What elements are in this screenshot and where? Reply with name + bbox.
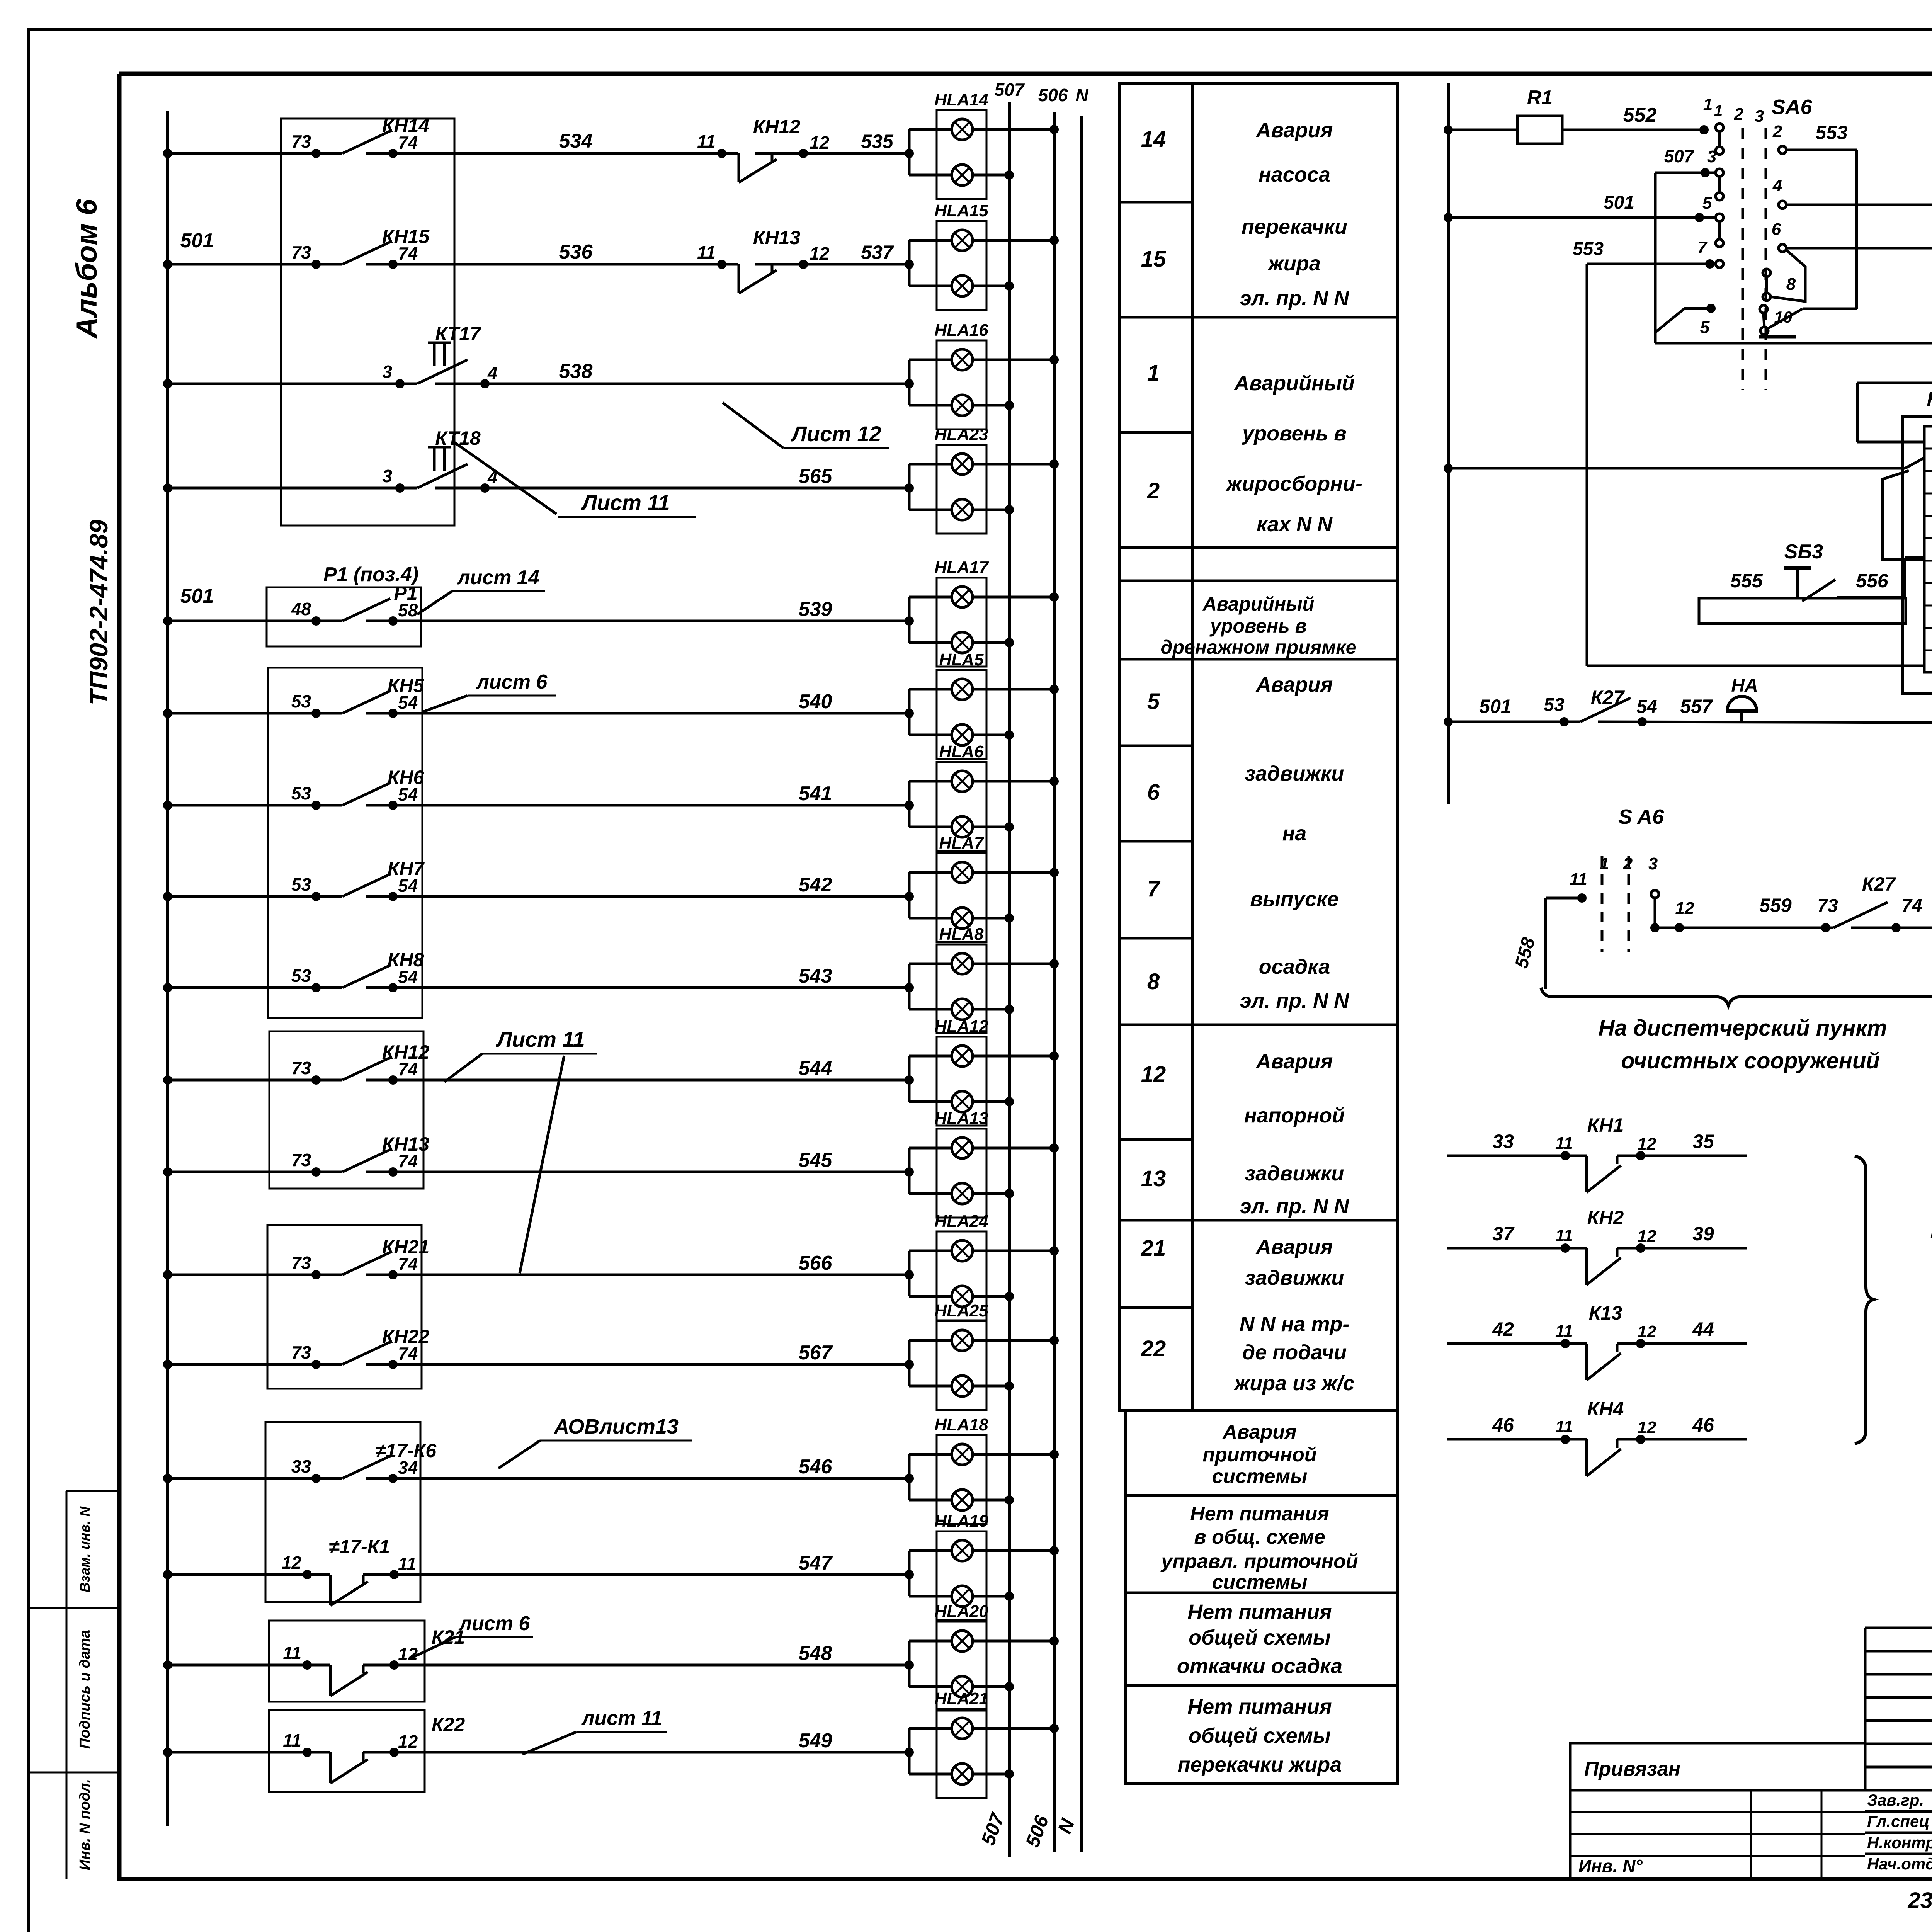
wire rung 536 [168, 263, 342, 266]
svg-text:5: 5 [1147, 689, 1160, 714]
KHA enclosure [1903, 417, 1932, 694]
svg-text:Авария: Авария [1255, 1235, 1333, 1259]
svg-text:Аварийный: Аварийный [1233, 372, 1355, 395]
svg-text:4: 4 [1772, 176, 1782, 195]
indicator lamps HLA19 [908, 1551, 911, 1596]
bus 507 left [1008, 102, 1011, 1857]
contact КН8 [342, 965, 390, 988]
KHA terminal strip [1924, 426, 1932, 672]
svg-text:К22: К22 [432, 1714, 465, 1735]
svg-text:КН6: КН6 [388, 767, 425, 788]
tap on bus 506 [1049, 125, 1059, 134]
svg-text:КН5: КН5 [388, 675, 425, 696]
tap on bus 506 [1049, 959, 1059, 968]
junction on bus, rung 539 [163, 616, 172, 626]
svg-text:2: 2 [1772, 122, 1782, 141]
contact К13 [1447, 1342, 1587, 1345]
svg-text:11: 11 [697, 131, 716, 151]
SA6 right terminals / contact 2 loop 553 [1779, 146, 1786, 154]
junction on bus, rung 547 [163, 1570, 172, 1579]
svg-text:На диспетчерский пункт: На диспетчерский пункт [1599, 1015, 1887, 1041]
contact КН1 [1447, 1155, 1587, 1157]
tap on bus 507 [1005, 1097, 1014, 1106]
tap on bus 506 [1049, 868, 1059, 877]
tap on bus 507 [1005, 401, 1014, 410]
wire 507 long horizontal [1655, 342, 1932, 345]
svg-text:46: 46 [1692, 1414, 1714, 1436]
svg-text:23985-06: 23985-06 [1907, 1888, 1932, 1913]
left stamp column vertical [66, 1491, 68, 1879]
indicator lamps HLA6 [908, 781, 911, 827]
svg-text:Взам. инв. N: Взам. инв. N [77, 1506, 93, 1593]
svg-text:КН8: КН8 [388, 949, 424, 971]
left stamp divider 1 [29, 1607, 119, 1609]
contact К21 [329, 1665, 332, 1696]
svg-text:HLA23: HLA23 [934, 425, 988, 444]
svg-text:12: 12 [1638, 1322, 1656, 1341]
tap on bus 506 [1049, 1546, 1059, 1555]
svg-text:39: 39 [1692, 1223, 1714, 1245]
leader note лист 6 (KH5) [468, 695, 556, 697]
table upper outline [1120, 83, 1397, 1411]
svg-text:12: 12 [1141, 1062, 1166, 1087]
box around K22 [269, 1710, 425, 1792]
svg-text:К13: К13 [1589, 1302, 1622, 1324]
tap on bus 507 [1005, 505, 1014, 514]
brace KH group [1855, 1156, 1874, 1444]
svg-text:544: 544 [799, 1057, 832, 1080]
svg-text:15: 15 [1141, 247, 1166, 272]
svg-text:12: 12 [398, 1644, 418, 1664]
leader note Лист 11 (KH12 / KH21) [482, 1053, 597, 1055]
svg-text:11: 11 [1555, 1226, 1573, 1245]
contact K27 blade [1580, 698, 1631, 722]
svg-text:7: 7 [1697, 238, 1708, 257]
svg-text:22: 22 [1141, 1336, 1166, 1361]
svg-text:лист 6: лист 6 [458, 1612, 531, 1635]
svg-text:КН13: КН13 [382, 1133, 430, 1155]
indicator lamps HLA12 [908, 1056, 911, 1102]
svg-text:545: 545 [799, 1149, 833, 1172]
svg-text:549: 549 [799, 1730, 832, 1752]
svg-text:R1: R1 [1527, 87, 1553, 109]
bus 506 left [1053, 112, 1056, 1852]
svg-text:557: 557 [1680, 696, 1713, 717]
indicator lamps HLA18 [908, 1454, 911, 1500]
svg-text:системы: системы [1212, 1571, 1308, 1594]
svg-text:546: 546 [799, 1456, 833, 1478]
svg-text:12: 12 [1638, 1227, 1656, 1246]
svg-text:73: 73 [291, 242, 311, 262]
junction on bus, rung 543 [163, 983, 172, 992]
svg-text:HLA19: HLA19 [934, 1512, 988, 1531]
svg-text:Авария: Авария [1222, 1421, 1296, 1443]
time-delay symbol [433, 447, 436, 471]
box around K21 [269, 1621, 425, 1702]
bell HA [1727, 696, 1757, 711]
svg-text:на: на [1282, 822, 1307, 845]
wire rung 546 [168, 1477, 342, 1480]
indicator lamps HLA20 [908, 1641, 911, 1687]
svg-text:задвижки: задвижки [1245, 1266, 1344, 1289]
svg-text:12: 12 [810, 243, 830, 264]
contact КН13 [342, 1150, 390, 1172]
svg-text:42: 42 [1492, 1318, 1514, 1340]
svg-text:2: 2 [1734, 105, 1744, 124]
svg-text:К27: К27 [1862, 873, 1896, 895]
svg-text:33: 33 [1492, 1131, 1514, 1152]
wire 553 down to terminal 21 [1586, 264, 1588, 666]
svg-text:Нет питания: Нет питания [1187, 1695, 1332, 1718]
indicator lamps HLA14 [908, 129, 911, 175]
svg-text:548: 548 [799, 1642, 832, 1665]
tap on bus 506 [1049, 1336, 1059, 1345]
svg-text:HLA17: HLA17 [934, 558, 989, 577]
contact КТ18 [417, 464, 468, 488]
contact КН4 [1447, 1438, 1587, 1441]
contact КТ17 [417, 360, 468, 384]
svg-text:11: 11 [1570, 870, 1587, 889]
svg-text:54: 54 [1636, 697, 1657, 717]
svg-text:73: 73 [291, 1058, 311, 1078]
svg-text:уровень в: уровень в [1209, 615, 1307, 637]
svg-text:3: 3 [1755, 107, 1764, 126]
contact КН21 [342, 1252, 390, 1275]
tap on bus 506 [1049, 592, 1059, 602]
svg-text:12: 12 [1638, 1418, 1656, 1437]
svg-text:КН12: КН12 [382, 1041, 430, 1063]
svg-text:33: 33 [291, 1456, 311, 1476]
contact К22 [329, 1752, 332, 1783]
svg-text:де подачи: де подачи [1242, 1341, 1347, 1364]
svg-text:11: 11 [283, 1730, 301, 1750]
box around 17-K6 17-K1 [265, 1422, 420, 1602]
svg-text:6: 6 [1147, 780, 1160, 805]
wire rung 548 [168, 1664, 330, 1667]
left bus wire 501 vertical [166, 111, 169, 1826]
indicator lamps HLA21 [908, 1728, 911, 1774]
contact КН12 [755, 152, 909, 155]
junction on bus, rung 541 [163, 801, 172, 810]
svg-text:N N на тр-: N N на тр- [1240, 1313, 1350, 1336]
wire rung 539 [168, 620, 342, 622]
svg-text:SБ3: SБ3 [1784, 541, 1823, 563]
wire rung 534 [168, 152, 342, 155]
svg-text:К27: К27 [1591, 687, 1625, 708]
switch SA6 dashed section lines [1742, 128, 1744, 390]
svg-text:HLA6: HLA6 [939, 742, 984, 761]
box around P1 [267, 587, 421, 646]
svg-text:536: 536 [559, 241, 593, 263]
svg-text:Привязан: Привязан [1584, 1758, 1680, 1780]
SA6 pin 4 wire N [1779, 201, 1786, 209]
svg-text:11: 11 [1555, 1134, 1573, 1153]
wire 554 into terminal 1 [1856, 383, 1859, 442]
svg-text:552: 552 [1623, 104, 1657, 126]
svg-text:73: 73 [291, 1253, 311, 1273]
jumper to terminal 13 [1883, 471, 1923, 560]
svg-text:547: 547 [799, 1552, 833, 1574]
bus N left [1080, 116, 1083, 1852]
svg-text:12: 12 [810, 133, 830, 153]
tap on bus 507 [1005, 170, 1014, 180]
svg-text:501: 501 [1479, 696, 1511, 717]
svg-text:Нет питания: Нет питания [1190, 1503, 1329, 1525]
junction on bus, rung 534 [163, 149, 172, 158]
svg-text:11: 11 [283, 1643, 301, 1663]
svg-text:53: 53 [291, 966, 311, 986]
svg-text:задвижки: задвижки [1245, 1162, 1344, 1185]
svg-text:11: 11 [1555, 1417, 1573, 1436]
svg-text:в общ. схеме: в общ. схеме [1194, 1526, 1325, 1548]
svg-text:Авария: Авария [1255, 119, 1333, 142]
title block [1864, 1628, 1867, 1790]
svg-text:HLA20: HLA20 [934, 1602, 988, 1621]
svg-text:6: 6 [1772, 220, 1781, 239]
svg-text:538: 538 [559, 360, 593, 383]
svg-text:11: 11 [398, 1554, 417, 1574]
svg-text:35: 35 [1692, 1131, 1714, 1152]
svg-text:эл. пр. N N: эл. пр. N N [1240, 287, 1349, 310]
contact КН22 [342, 1342, 390, 1364]
svg-text:3: 3 [382, 362, 392, 382]
contact КН2 [1447, 1247, 1587, 1250]
wire 559 [1655, 927, 1833, 929]
svg-text:напорной: напорной [1244, 1104, 1345, 1127]
svg-text:НА: НА [1731, 675, 1758, 696]
svg-text:Инв. N°: Инв. N° [1578, 1856, 1643, 1876]
wire 554 / relay K27 coil [1857, 382, 1932, 384]
contact КН15 [342, 242, 390, 264]
svg-text:КН4: КН4 [1587, 1398, 1624, 1420]
wire rung 542 [168, 895, 342, 898]
svg-text:539: 539 [799, 598, 832, 621]
svg-text:48: 48 [291, 599, 311, 619]
svg-text:553: 553 [1815, 122, 1848, 143]
tap on bus 506 [1049, 1143, 1059, 1153]
tap on bus 507 [1005, 638, 1014, 647]
svg-text:556: 556 [1856, 570, 1889, 592]
indicator lamps HLA13 [908, 1148, 911, 1194]
junction R1 rung [1444, 125, 1453, 134]
svg-text:приточной: приточной [1202, 1444, 1316, 1466]
svg-text:Лист 11: Лист 11 [580, 490, 670, 515]
tap on bus 507 [1005, 730, 1014, 740]
tap on bus 506 [1049, 1051, 1059, 1061]
contact КН7 [342, 874, 390, 896]
svg-text:задвижки: задвижки [1245, 762, 1344, 785]
svg-text:542: 542 [799, 874, 832, 896]
svg-text:534: 534 [559, 130, 593, 152]
tap on bus 506 [1049, 777, 1059, 786]
tap on bus 506 [1049, 685, 1059, 694]
svg-text:КН13: КН13 [753, 227, 801, 248]
wire rung 543 [168, 986, 342, 989]
junction on bus, rung 566 [163, 1270, 172, 1279]
indicator lamps HLA15 [908, 240, 911, 286]
SA6 contact 10 [1760, 305, 1767, 313]
svg-text:501: 501 [180, 230, 214, 252]
svg-text:Зав.гр.: Зав.гр. [1867, 1791, 1924, 1809]
svg-text:501: 501 [180, 585, 214, 607]
svg-text:12: 12 [398, 1731, 418, 1752]
svg-text:Авария: Авария [1255, 673, 1333, 696]
svg-text:жира из ж/с: жира из ж/с [1233, 1372, 1354, 1395]
svg-text:73: 73 [291, 1342, 311, 1362]
svg-text:12: 12 [1675, 899, 1694, 918]
svg-text:1: 1 [1703, 95, 1713, 114]
svg-text:3: 3 [1707, 147, 1716, 166]
svg-text:перекачки жира: перекачки жира [1178, 1753, 1342, 1776]
svg-text:540: 540 [799, 690, 832, 713]
tap on bus 506 [1049, 236, 1059, 245]
svg-text:2: 2 [1147, 478, 1160, 503]
svg-text:53: 53 [291, 783, 311, 803]
svg-text:5: 5 [1700, 318, 1710, 337]
svg-text:осадка: осадка [1259, 955, 1330, 978]
svg-text:74: 74 [1901, 896, 1922, 916]
junction on bus, rung 545 [163, 1167, 172, 1177]
svg-text:53: 53 [1544, 695, 1565, 715]
svg-text:565: 565 [799, 465, 833, 488]
wire 552 [1562, 129, 1704, 131]
svg-text:HLA15: HLA15 [934, 201, 988, 220]
left stamp divider 2 [29, 1772, 119, 1774]
SA6 left terminals [1716, 124, 1723, 131]
svg-text:HLA12: HLA12 [934, 1017, 988, 1036]
svg-text:44: 44 [1692, 1318, 1714, 1340]
contact КН5 [342, 691, 390, 713]
svg-text:HLA5: HLA5 [939, 650, 984, 669]
svg-text:Н.контр: Н.контр [1867, 1833, 1932, 1852]
indicator lamps HLA5 [908, 689, 911, 735]
svg-text:21: 21 [1141, 1236, 1166, 1261]
box around KH12 KH13 [269, 1031, 423, 1189]
svg-text:S A6: S A6 [1618, 805, 1664, 828]
svg-text:КН1: КН1 [1587, 1114, 1624, 1136]
svg-text:8: 8 [1786, 275, 1796, 294]
tap on bus 506 [1049, 1246, 1059, 1255]
tap on bus 507 [1005, 1381, 1014, 1391]
indicator lamps HLA8 [908, 964, 911, 1009]
SB3 contact bar [1699, 598, 1906, 624]
svg-text:КН7: КН7 [388, 858, 425, 879]
svg-text:Подпись и дата: Подпись и дата [77, 1630, 93, 1749]
wire rung 565 [168, 487, 417, 490]
wire rung 567 [168, 1363, 342, 1366]
svg-text:555: 555 [1730, 570, 1763, 592]
left stamp divider top [66, 1490, 119, 1492]
junction on bus, rung 565 [163, 483, 172, 493]
svg-text:1: 1 [1147, 361, 1160, 386]
indicator lamps HLA16 [908, 360, 911, 405]
tap on bus 506 [1049, 1724, 1059, 1733]
leader note Лист 11 (box A) [454, 442, 556, 514]
svg-text:53: 53 [291, 874, 311, 895]
svg-text:N: N [1075, 85, 1088, 105]
junction on bus, rung 548 [163, 1660, 172, 1670]
svg-text:14: 14 [1141, 127, 1166, 152]
leader note лист 6 (K21) [455, 1636, 533, 1638]
indicator lamps HLA25 [908, 1340, 911, 1386]
svg-text:КН2: КН2 [1587, 1207, 1624, 1228]
tap on bus 507 [1005, 1495, 1014, 1505]
tap on bus 507 [1005, 1682, 1014, 1691]
svg-text:HLA7: HLA7 [939, 833, 985, 852]
SA6 contact 8 [1763, 269, 1770, 277]
svg-text:выпуске: выпуске [1250, 888, 1338, 911]
svg-text:АОВлист13: АОВлист13 [553, 1415, 679, 1438]
junction on bus, rung 542 [163, 892, 172, 901]
svg-text:очистных сооружений: очистных сооружений [1621, 1048, 1879, 1073]
svg-text:КН15: КН15 [382, 226, 430, 247]
svg-text:управл. приточной: управл. приточной [1160, 1550, 1358, 1573]
svg-text:535: 535 [861, 131, 894, 152]
tap on bus 507 [1005, 822, 1014, 832]
leader note лист 11 (K22) [577, 1731, 667, 1733]
svg-text:лист 6: лист 6 [476, 671, 548, 693]
cell Привязан [1570, 1743, 1865, 1790]
svg-text:543: 543 [799, 965, 832, 987]
indicator lamps HLA23 [908, 464, 911, 510]
svg-text:общей схемы: общей схемы [1189, 1626, 1331, 1649]
contact &#8800;17-К6 [342, 1456, 390, 1478]
svg-text:SA6: SA6 [1771, 95, 1812, 119]
tap on bus 507 [1005, 1292, 1014, 1301]
wire 558 down [1544, 898, 1547, 989]
svg-text:Нач.отд: Нач.отд [1867, 1855, 1932, 1873]
svg-text:5: 5 [1702, 194, 1712, 213]
contact K27 blade [1833, 902, 1888, 928]
junction on bus, rung 546 [163, 1474, 172, 1483]
svg-text:системы: системы [1212, 1465, 1308, 1488]
svg-text:HLA21: HLA21 [934, 1689, 988, 1708]
svg-text:537: 537 [861, 241, 894, 263]
svg-text:насоса: насоса [1259, 163, 1330, 186]
junction on bus, rung 538 [163, 379, 172, 388]
svg-text:уровень в: уровень в [1241, 422, 1347, 445]
tap on bus 506 [1049, 355, 1059, 364]
svg-text:Нет питания: Нет питания [1187, 1600, 1332, 1624]
svg-text:HLA14: HLA14 [934, 90, 988, 109]
svg-text:11: 11 [1555, 1321, 1573, 1340]
svg-text:HLA24: HLA24 [934, 1212, 988, 1231]
svg-text:501: 501 [1604, 192, 1634, 213]
wire rung 549 [168, 1751, 330, 1754]
svg-text:4: 4 [487, 363, 498, 383]
svg-text:HLA16: HLA16 [934, 321, 988, 340]
tap on bus 506 [1049, 459, 1059, 469]
svg-text:1: 1 [1714, 102, 1723, 119]
bell rung 501-53-K27-54-557-HA [1444, 717, 1453, 726]
indicator lamps HLA24 [908, 1251, 911, 1296]
tap on bus 506 [1049, 1450, 1059, 1459]
svg-text:КНА: КНА [1927, 388, 1932, 410]
bus 501 second vertical [1447, 83, 1450, 804]
wire rung 540 [168, 712, 342, 715]
svg-text:566: 566 [799, 1252, 833, 1274]
wire to R1 [1448, 129, 1517, 131]
contact КН13 [755, 263, 909, 266]
tap on bus 507 [1005, 1592, 1014, 1601]
svg-text:506: 506 [1038, 85, 1068, 105]
svg-text:Альбом 6: Альбом 6 [70, 199, 103, 339]
tap on bus 507 [1005, 281, 1014, 291]
svg-text:37: 37 [1492, 1223, 1515, 1245]
junction on bus, rung 536 [163, 260, 172, 269]
svg-text:8: 8 [1147, 969, 1160, 994]
table lower outline [1126, 1411, 1398, 1784]
